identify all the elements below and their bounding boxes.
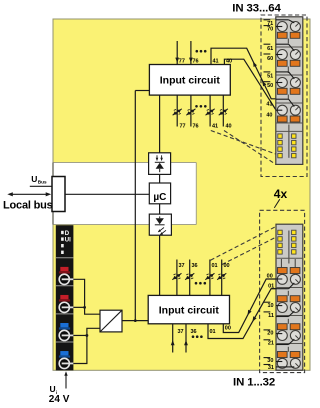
- svg-text:60: 60: [267, 56, 273, 62]
- row wire 00 interior: [266, 278, 282, 280]
- optocoupler (bottom): [149, 214, 171, 235]
- suppressor diode on stub 41: [206, 109, 215, 115]
- channel LED row 2 (bottom strip): [278, 237, 282, 241]
- svg-text:00: 00: [224, 263, 230, 269]
- svg-text:37: 37: [179, 263, 185, 269]
- suppressor diode on stub 01: [205, 273, 214, 279]
- svg-text:77: 77: [179, 58, 185, 64]
- wire stub 76 below top input circuit: [190, 95, 192, 126]
- wire bus connector to uC: [65, 193, 149, 195]
- clamp link tick (bottom strip): [287, 291, 289, 296]
- svg-text:U: U: [50, 384, 56, 394]
- svg-text:36: 36: [191, 329, 197, 335]
- module body (yellow block): [53, 19, 310, 370]
- LED field top line (top strip): [276, 130, 303, 132]
- svg-text:50: 50: [267, 83, 273, 89]
- svg-text:61: 61: [267, 46, 273, 52]
- strip separator 1 (bottom strip): [276, 287, 303, 289]
- wire stub 36 above bottom input circuit: [189, 260, 191, 296]
- row tick 21: [264, 339, 271, 341]
- wire 40 to terminal (top): [224, 59, 276, 109]
- svg-text:µC: µC: [153, 192, 166, 203]
- row tick 31: [264, 364, 271, 366]
- svg-text:40: 40: [266, 113, 272, 119]
- wire from top input circuit to long vertical: [135, 90, 149, 92]
- wire opto to uC: [159, 174, 161, 183]
- suppressor diode on stub 40: [219, 109, 228, 115]
- row tick 10: [264, 301, 271, 303]
- junction converter node: [134, 319, 137, 322]
- terminal unit 10/11: [277, 296, 287, 302]
- wire stub 01 above bottom input circuit: [209, 260, 211, 296]
- row wire 41 interior: [276, 98, 289, 100]
- row wire 70 interior: [276, 26, 283, 28]
- wire 00 to terminal (bottom): [223, 279, 276, 333]
- terminal 4 (blue, GND): [60, 351, 68, 355]
- row wire 11 interior: [276, 316, 289, 318]
- terminal strip IN 1...32: [276, 224, 303, 370]
- row wire 20 interior: [276, 333, 282, 335]
- svg-text:40: 40: [226, 58, 232, 64]
- strip separator 4 (top strip): [276, 122, 303, 124]
- ellipsis dots below bottom input circuit: [192, 335, 195, 338]
- junction terminal1/2: [83, 306, 86, 309]
- strip separator 1 (top strip): [276, 46, 303, 48]
- row wire 30 interior: [276, 361, 282, 363]
- suppressor diode on stub 36: [185, 273, 194, 279]
- svg-text:UI: UI: [65, 238, 71, 244]
- clamp link tick (bottom strip): [287, 347, 289, 352]
- svg-text:40: 40: [226, 123, 232, 129]
- channel LED row 2 (top strip): [278, 140, 282, 144]
- row tick 71: [264, 19, 271, 21]
- svg-text:01: 01: [268, 284, 274, 290]
- wire 37 input arrow (bottom): [172, 324, 174, 353]
- clamp link tick (bottom strip): [287, 319, 289, 324]
- ellipsis dots above top input circuit: [196, 50, 199, 53]
- svg-text:01: 01: [210, 329, 216, 335]
- svg-text:U: U: [31, 174, 37, 184]
- strip separator 3 (bottom strip): [276, 343, 303, 345]
- U_i supply arrow: [65, 374, 67, 389]
- wire 41 to terminal (top): [211, 48, 276, 99]
- microcontroller uC: [149, 183, 170, 204]
- clamp link tick (top strip): [287, 95, 289, 100]
- terminal 3 (blue, GND): [60, 323, 68, 327]
- wire 36 input arrow (bottom): [185, 324, 187, 353]
- wire stub 40 below top input circuit: [222, 95, 224, 126]
- wire terminal2 join: [73, 306, 84, 308]
- local bus band: [0, 163, 196, 225]
- black strip separator 2: [56, 285, 74, 287]
- clamp link tick (top strip): [287, 39, 289, 44]
- dashed projection line top A: [211, 131, 276, 155]
- row wire 10 interior: [276, 305, 282, 307]
- row wire 21 interior: [276, 344, 289, 346]
- terminal unit 00/01: [277, 268, 287, 274]
- row tick 70: [264, 25, 271, 27]
- svg-text:00: 00: [267, 274, 273, 280]
- terminal unit 71/70: [277, 22, 287, 32]
- wire stub 37 above bottom input circuit: [176, 260, 178, 296]
- terminal 2 (red, 24V): [60, 295, 68, 299]
- row tick 51: [264, 71, 271, 73]
- status LED 2: [61, 237, 64, 240]
- ellipsis dots below top input circuit: [195, 105, 198, 108]
- suppressor diode on stub 37: [172, 273, 181, 279]
- svg-text:70: 70: [267, 27, 273, 33]
- wire top input circuit to optocoupler: [159, 95, 161, 153]
- svg-text:Input circuit: Input circuit: [159, 304, 220, 316]
- bus connector: [52, 177, 65, 212]
- svg-text:37: 37: [178, 329, 184, 335]
- power connector strip (black): [56, 225, 74, 370]
- row wire 50 interior: [276, 82, 283, 84]
- dashed projection line top B: [224, 131, 276, 165]
- wire stub 41 below top input circuit: [209, 95, 211, 126]
- input circuit box (top) U-top: [149, 65, 230, 96]
- LED field divider (top strip): [288, 125, 290, 158]
- clamp link tick (top strip): [287, 67, 289, 74]
- black strip separator 3: [56, 313, 74, 315]
- svg-text:11: 11: [268, 313, 274, 319]
- LED field bottom line (bottom strip): [276, 257, 303, 259]
- svg-text:20: 20: [267, 331, 273, 337]
- row tick 20: [264, 329, 271, 331]
- svg-text:D: D: [65, 231, 70, 237]
- status LED 3: [61, 244, 64, 247]
- black strip separator 1: [56, 257, 74, 259]
- wire stub 77 below top input circuit: [176, 95, 178, 126]
- channel LED row 1 (top strip): [278, 134, 282, 138]
- svg-text:Bus: Bus: [38, 179, 47, 184]
- wire terminal1 to converter: [73, 279, 100, 314]
- channel LED row 4 (top strip): [278, 153, 282, 157]
- row wire 40 interior: [276, 109, 283, 111]
- wire stub 00 above bottom input circuit: [221, 260, 223, 296]
- svg-text:76: 76: [193, 123, 199, 129]
- status LED 1: [61, 231, 64, 234]
- channel LED row 1 (bottom strip): [278, 230, 282, 234]
- dashed group box IN 33...64: [261, 15, 307, 177]
- terminal unit 41/40: [277, 105, 287, 115]
- dashed projection line bottom B: [222, 237, 276, 265]
- terminal unit 20/21: [277, 324, 287, 330]
- U_Bus wire: [30, 185, 52, 187]
- channel LED row 4 (bottom strip): [278, 250, 282, 254]
- suppressor diode on stub 76: [186, 109, 195, 115]
- svg-text:Input circuit: Input circuit: [160, 75, 221, 87]
- wire opto bottom to bottom input circuit: [159, 235, 161, 295]
- row wire 51 interior: [276, 71, 289, 73]
- input circuit box (bottom): [148, 295, 229, 323]
- ellipsis dots above bottom input circuit: [195, 282, 198, 285]
- terminal strip IN 33...64: [276, 17, 303, 165]
- 4x pointer: [274, 199, 280, 208]
- junction terminal3/4: [86, 334, 89, 337]
- DC/DC converter: [100, 310, 122, 332]
- row tick 30: [264, 357, 271, 359]
- dashed group box IN 1...32: [260, 210, 305, 372]
- svg-text:IN 1...32: IN 1...32: [233, 376, 275, 388]
- module left border through band: [52, 163, 54, 225]
- row wire 31 interior: [276, 366, 289, 368]
- suppressor diode on stub 00: [217, 273, 226, 279]
- svg-text:51: 51: [267, 74, 273, 80]
- black strip separator 4: [56, 341, 74, 343]
- row tick 61: [264, 43, 271, 45]
- svg-text:41: 41: [266, 102, 272, 108]
- terminal unit 61/60: [277, 50, 287, 60]
- svg-text:21: 21: [268, 341, 274, 347]
- svg-text:36: 36: [192, 263, 198, 269]
- svg-text:Local bus: Local bus: [3, 199, 53, 211]
- wire terminal4 to converter: [73, 328, 100, 363]
- optocoupler (top): [149, 153, 171, 175]
- channel LED row 3 (bottom strip): [278, 243, 282, 247]
- svg-text:4x: 4x: [274, 187, 288, 201]
- clamp ticks below LED field: [280, 259, 282, 268]
- channel LED row 3 (top strip): [278, 147, 282, 151]
- svg-text:00: 00: [225, 325, 231, 331]
- status LED 4: [61, 251, 64, 254]
- local bus double arrow: [9, 193, 49, 195]
- wire 77 input arrow (top): [176, 41, 178, 65]
- wire terminal3 join: [73, 334, 87, 336]
- strip separator 3 (top strip): [276, 102, 303, 104]
- row tick 11: [264, 311, 271, 313]
- svg-text:30: 30: [267, 358, 273, 364]
- terminal 1 (red, 24V): [60, 267, 68, 271]
- terminal unit 51/50: [277, 78, 287, 88]
- wire 01 to terminal (bottom): [208, 289, 276, 339]
- svg-text:24 V: 24 V: [49, 394, 70, 405]
- strip separator 2 (bottom strip): [276, 315, 303, 317]
- row wire 01 interior: [271, 288, 289, 290]
- row tick 60: [264, 53, 271, 55]
- suppressor diode on stub 77: [173, 109, 182, 115]
- row wire 71 interior: [276, 19, 289, 21]
- LED field divider (bottom strip): [288, 231, 290, 264]
- svg-text:41: 41: [213, 58, 219, 64]
- wire converter to bottom input circuit: [122, 320, 148, 322]
- svg-text:41: 41: [212, 123, 218, 129]
- terminal unit 30/31: [277, 352, 287, 358]
- svg-text:01: 01: [212, 263, 218, 269]
- svg-text:31: 31: [268, 365, 274, 371]
- row wire 60 interior: [276, 54, 283, 56]
- row tick 50: [264, 81, 271, 83]
- svg-text:77: 77: [180, 123, 186, 129]
- svg-text:76: 76: [193, 58, 199, 64]
- svg-text:10: 10: [267, 303, 273, 309]
- long vertical wire to converter output node: [134, 91, 136, 321]
- wire 76 input arrow (top): [190, 41, 192, 65]
- strip separator 2 (top strip): [276, 74, 303, 76]
- svg-text:IN 33...64: IN 33...64: [232, 2, 281, 14]
- dashed projection line bottom A: [211, 226, 277, 260]
- wire uC to opto bottom: [159, 204, 161, 214]
- row wire 61 interior: [276, 43, 289, 45]
